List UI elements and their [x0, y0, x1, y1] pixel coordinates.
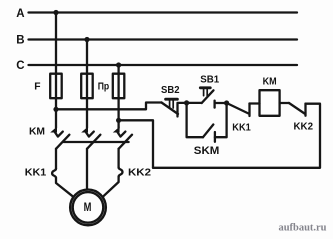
svg-text:SB1: SB1: [200, 75, 219, 86]
KM contact 1 chevron: [55, 132, 63, 137]
KM contact 3 chevron: [117, 132, 125, 137]
svg-text:SKM: SKM: [194, 145, 220, 157]
wire KK1 to motor: [56, 178, 73, 197]
KM main contact 2 blade: [87, 135, 100, 149]
svg-text:KM: KM: [263, 77, 277, 88]
KM contacts linkage bar: [63, 141, 128, 143]
wire below KM contact 3: [117, 149, 119, 168]
SKM fixed bar: [214, 132, 216, 142]
fuse F2 (Пр): [81, 74, 93, 99]
motor outer circle: [70, 190, 106, 226]
KM main contact 3 blade: [119, 135, 132, 149]
thermal contact KK2 blade: [289, 103, 305, 114]
KM contact 1 arrow: [50, 127, 57, 133]
pushbutton SB1 actuator: [200, 88, 210, 96]
node bus B tap: [84, 37, 89, 42]
pushbutton SB2 actuator: [166, 99, 178, 108]
wire KK1 to coil: [250, 102, 260, 104]
svg-text:M: M: [84, 200, 92, 214]
auxiliary contact SKM blade: [203, 125, 213, 138]
KK1 fixed bar: [248, 104, 250, 117]
wire phase B drop: [86, 40, 88, 74]
node control feed tap: [53, 107, 58, 112]
wire phase C drop: [117, 65, 119, 74]
svg-text:KK2: KK2: [128, 168, 151, 179]
svg-text:A: A: [16, 8, 24, 20]
fuse F3: [113, 74, 125, 99]
wire below KM contact 2 to motor: [86, 149, 88, 190]
contactor coil KM: [260, 90, 280, 116]
wire KK2 to right edge and bottom return: [153, 104, 320, 168]
thermal element KK1: [52, 169, 56, 178]
thermal contact KK1 blade: [227, 103, 249, 114]
pushbutton SB2 blade: [162, 103, 179, 115]
wire control return tap: [119, 120, 153, 168]
wire fuse2 to KM contact: [86, 74, 88, 128]
KM contact 2 arrow: [81, 127, 88, 133]
svg-text:C: C: [16, 60, 24, 72]
node SB2/SKM junction: [184, 100, 189, 105]
svg-text:KK1: KK1: [25, 168, 47, 179]
pushbutton SB1 fixed bar: [213, 101, 215, 108]
pushbutton SB2 fixed bar: [176, 104, 178, 117]
node SB1/KK1 junction: [224, 100, 229, 105]
KM contact 3 arrow: [113, 127, 120, 133]
svg-text:KK2: KK2: [294, 122, 314, 133]
wire control feed tap: [56, 103, 162, 110]
svg-text:aufbaut.ru: aufbaut.ru: [279, 222, 327, 234]
SKM branch right riser: [215, 103, 227, 137]
bus line B: [29, 38, 298, 40]
bus line A: [29, 11, 298, 13]
SKM branch left riser: [187, 103, 203, 137]
KM main contact 1 blade: [56, 135, 69, 149]
wire fuse3 to KM contact: [117, 74, 119, 128]
thermal element KK2: [119, 167, 123, 176]
fuse F1: [50, 74, 62, 99]
node bus C tap: [116, 62, 121, 67]
svg-text:KK1: KK1: [232, 122, 251, 133]
svg-text:Пр: Пр: [98, 82, 110, 93]
wire below KM contact 1: [55, 149, 57, 169]
KK2 fixed bar: [304, 104, 306, 116]
svg-text:F: F: [34, 81, 40, 92]
motor inner circle: [73, 192, 104, 223]
wire coil to KK2: [280, 102, 289, 104]
node bus A tap: [53, 10, 58, 15]
pushbutton SB1 blade: [202, 90, 214, 103]
wire SB1 to KK1 junction: [215, 102, 227, 104]
svg-text:SB2: SB2: [161, 85, 180, 96]
wire fuse1 to KM contact: [55, 74, 57, 128]
wire KK2 to motor: [103, 177, 118, 197]
wire phase A drop: [55, 13, 57, 74]
node control return tap: [116, 118, 121, 123]
KM contact 2 chevron: [86, 132, 94, 137]
svg-text:B: B: [16, 35, 24, 47]
bus line C: [29, 64, 298, 66]
svg-text:KM: KM: [29, 126, 45, 137]
wire SB2 to SB1: [178, 102, 202, 104]
